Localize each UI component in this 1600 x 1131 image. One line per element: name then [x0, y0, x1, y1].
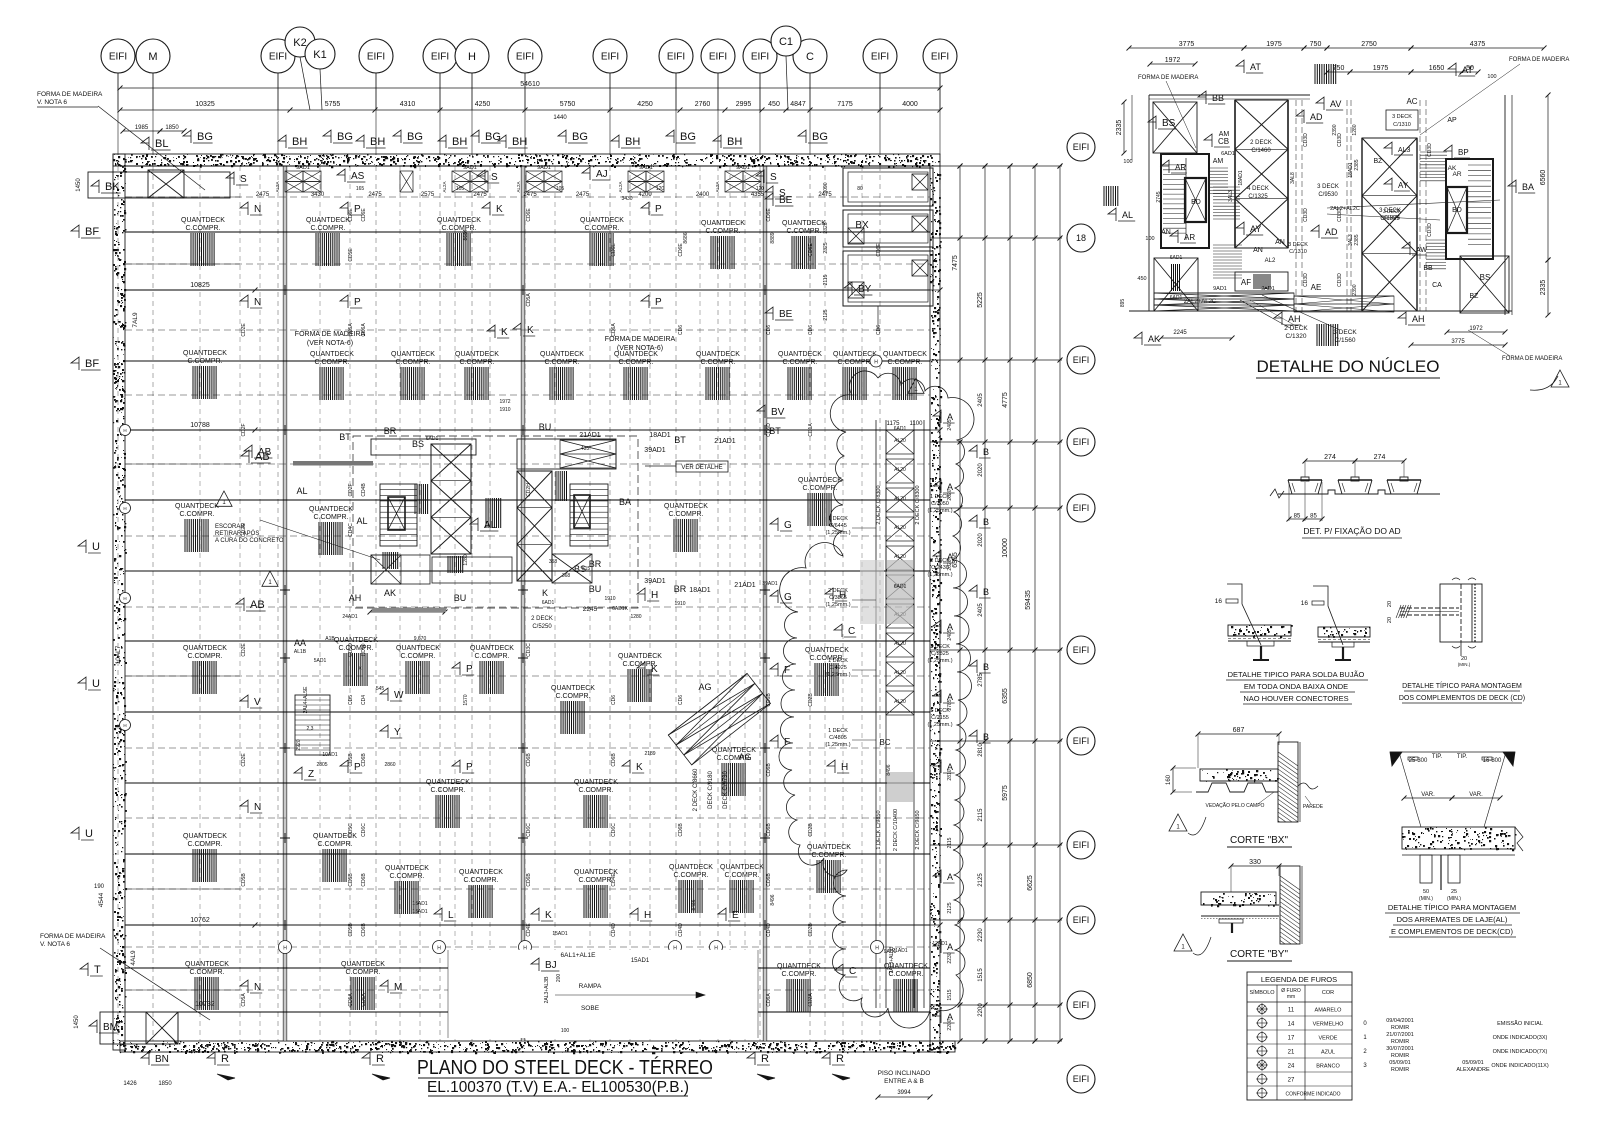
right dimension strings: [959, 166, 961, 1041]
svg-text:1972: 1972: [499, 399, 510, 405]
svg-text:EIFI: EIFI: [269, 52, 287, 63]
nucleo top right corner hatch: [1315, 64, 1336, 84]
svg-text:21/07/2001: 21/07/2001: [1386, 1032, 1414, 1038]
svg-text:C.COMPR.: C.COMPR.: [725, 872, 760, 879]
svg-text:AS: AS: [351, 171, 365, 182]
svg-text:EIFI: EIFI: [931, 52, 949, 63]
svg-text:C.COMPR.: C.COMPR.: [190, 969, 225, 976]
svg-text:C.COMPR.: C.COMPR.: [442, 225, 477, 232]
svg-text:120: 120: [656, 186, 665, 192]
svg-text:C.COMPR.: C.COMPR.: [783, 359, 818, 366]
svg-text:CD5B: CD5B: [348, 753, 354, 767]
nucleo bottom dims: [1161, 337, 1232, 339]
svg-text:9AD1: 9AD1: [296, 165, 310, 171]
svg-text:2860: 2860: [384, 762, 395, 768]
svg-text:K: K: [542, 588, 548, 598]
nucleo 6AD1 hatch strip: [1172, 264, 1180, 291]
svg-text:CD6: CD6: [678, 325, 684, 335]
svg-text:AY: AY: [1398, 181, 1409, 190]
svg-text:AL20: AL20: [894, 525, 906, 531]
svg-text:(1,25mm.): (1,25mm.): [825, 602, 850, 608]
svg-text:AJ: AJ: [596, 169, 608, 180]
svg-text:CD6: CD6: [876, 325, 882, 335]
svg-text:8684: 8684: [463, 229, 469, 240]
svg-text:5AD1: 5AD1: [314, 658, 327, 664]
svg-text:10788: 10788: [190, 422, 210, 429]
svg-text:QUANTDECK: QUANTDECK: [574, 779, 618, 786]
svg-text:BU: BU: [454, 593, 467, 603]
svg-text:B: B: [983, 732, 989, 742]
svg-text:CD6C: CD6C: [526, 823, 532, 837]
svg-text:2 DECK: 2 DECK: [1284, 325, 1308, 332]
svg-text:25: 25: [1451, 889, 1457, 895]
left core lower rects: [371, 555, 430, 584]
svg-text:6AD1: 6AD1: [894, 584, 907, 590]
svg-text:BS: BS: [1480, 273, 1491, 282]
nucleo AF box bottom center: [1235, 272, 1288, 291]
svg-text:BG: BG: [572, 131, 588, 143]
thick gray wall segments near cores: [293, 461, 373, 466]
svg-text:ONDE INDICADO(11X): ONDE INDICADO(11X): [1491, 1063, 1549, 1069]
svg-text:AL20: AL20: [894, 496, 906, 502]
svg-text:CD6B: CD6B: [361, 873, 367, 887]
svg-text:2 DECK C/8300: 2 DECK C/8300: [915, 485, 921, 524]
svg-text:DETALHE TIPICO PARA SOLDA BUJÃ: DETALHE TIPICO PARA SOLDA BUJÃO: [1228, 670, 1365, 679]
svg-text:3AL3: 3AL3: [1228, 190, 1234, 202]
svg-text:AF: AF: [1241, 278, 1251, 287]
svg-text:QUANTDECK: QUANTDECK: [551, 685, 595, 692]
svg-text:H: H: [123, 506, 126, 511]
svg-text:10000: 10000: [1002, 538, 1009, 558]
svg-text:30/07/2001: 30/07/2001: [1386, 1046, 1414, 1052]
nucleo bottom center hatch: [1317, 324, 1338, 346]
svg-text:3430: 3430: [621, 196, 632, 202]
svg-text:C/5250: C/5250: [532, 624, 552, 630]
svg-text:BA: BA: [619, 497, 631, 507]
svg-text:COR: COR: [1322, 990, 1334, 996]
svg-text:AL: AL: [296, 486, 307, 496]
svg-text:TIP.: TIP.: [1432, 754, 1443, 760]
bottom left BM box: [100, 1012, 178, 1044]
svg-text:C.COMPR.: C.COMPR.: [669, 511, 704, 518]
svg-text:AL2A: AL2A: [275, 181, 280, 192]
svg-text:C.COMPR.: C.COMPR.: [464, 877, 499, 884]
svg-text:2 DECK C/8660: 2 DECK C/8660: [693, 768, 699, 811]
svg-text:QUANTDECK: QUANTDECK: [720, 864, 764, 871]
corte BX deck continuation right: [1298, 783, 1318, 789]
svg-text:105: 105: [456, 186, 465, 192]
svg-text:BZ: BZ: [1374, 158, 1384, 165]
svg-text:FORMA DE MADEIRA: FORMA DE MADEIRA: [40, 933, 106, 940]
svg-text:CD6E: CD6E: [876, 243, 882, 257]
svg-text:5750: 5750: [560, 101, 576, 108]
svg-text:EIFI: EIFI: [516, 52, 534, 63]
svg-text:VER DETALHE: VER DETALHE: [681, 465, 722, 471]
svg-text:EIFI: EIFI: [601, 52, 619, 63]
svg-text:(1,25mm.): (1,25mm.): [825, 530, 850, 536]
svg-text:CD2E: CD2E: [241, 643, 247, 657]
svg-text:59435: 59435: [1025, 590, 1032, 610]
svg-text:P: P: [466, 762, 473, 773]
svg-text:C.COMPR.: C.COMPR.: [339, 645, 374, 652]
svg-text:2995: 2995: [736, 101, 752, 108]
svg-text:1850: 1850: [165, 125, 179, 131]
svg-text:2245: 2245: [583, 606, 598, 613]
svg-text:27: 27: [1288, 1078, 1295, 1084]
svg-text:C/2155: C/2155: [931, 715, 949, 721]
svg-text:AL20: AL20: [894, 467, 906, 473]
plan top grid bubbles: [101, 39, 135, 73]
svg-text:H: H: [283, 946, 287, 952]
svg-text:6AD1: 6AD1: [542, 600, 555, 606]
nucleo small stair top hatch: [1208, 167, 1228, 169]
svg-text:A: A: [947, 482, 953, 492]
svg-text:K: K: [501, 327, 508, 338]
svg-text:2230: 2230: [947, 952, 953, 963]
svg-text:2335: 2335: [1116, 120, 1123, 136]
svg-text:4AL9: 4AL9: [130, 950, 137, 966]
svg-text:AD: AD: [1310, 112, 1323, 122]
svg-text:2AL2+AL2C: 2AL2+AL2C: [1184, 299, 1217, 305]
svg-text:EIFI: EIFI: [1073, 915, 1090, 925]
svg-text:N: N: [254, 982, 261, 993]
left core small hatches: [415, 484, 428, 514]
svg-text:C.COMPR.: C.COMPR.: [315, 359, 350, 366]
nucleo right X tall wall: [1362, 138, 1417, 311]
svg-text:QUANTDECK: QUANTDECK: [807, 844, 851, 851]
svg-text:12AD1: 12AD1: [932, 941, 948, 947]
svg-text:C.COMPR.: C.COMPR.: [706, 228, 741, 235]
svg-text:2020: 2020: [978, 533, 984, 547]
nucleo AL2B hatched zone: [1213, 186, 1240, 188]
det fixacao dims: [1305, 460, 1355, 462]
node circles on line 947: [279, 941, 292, 954]
svg-text:2405: 2405: [978, 393, 984, 407]
svg-text:AV: AV: [1330, 99, 1341, 109]
svg-text:AL2A: AL2A: [442, 181, 447, 192]
svg-text:VAR.: VAR.: [1421, 792, 1435, 798]
top dimension chain segments: [120, 109, 940, 111]
legenda de furos table: [1247, 972, 1352, 1100]
nucleo CD3D dashed strips: [1295, 100, 1297, 311]
svg-text:P: P: [655, 297, 662, 308]
svg-text:C: C: [849, 966, 856, 977]
svg-text:2760: 2760: [695, 101, 711, 108]
svg-text:C.COMPR.: C.COMPR.: [460, 359, 495, 366]
svg-text:A: A: [947, 1012, 953, 1022]
texture tick crosses at intersections: [280, 285, 770, 930]
svg-text:DET. P/ FIXAÇÃO DO AD: DET. P/ FIXAÇÃO DO AD: [1303, 526, 1400, 536]
nucleo right edge frame: [1504, 95, 1506, 315]
svg-text:BD: BD: [1191, 199, 1201, 206]
svg-text:C.COMPR.: C.COMPR.: [311, 225, 346, 232]
svg-text:AT: AT: [1462, 65, 1473, 75]
svg-text:2 DECK C/10400: 2 DECK C/10400: [893, 809, 899, 851]
svg-text:EIFI: EIFI: [1073, 1000, 1090, 1010]
right dim tick marks: [958, 164, 1063, 1044]
svg-text:C.COMPR.: C.COMPR.: [674, 872, 709, 879]
svg-text:C/3865: C/3865: [829, 595, 847, 601]
svg-text:B: B: [983, 662, 989, 672]
svg-text:2575: 2575: [421, 192, 435, 198]
svg-text:C.COMPR.: C.COMPR.: [431, 787, 466, 794]
right core X brace wall: [517, 471, 552, 581]
svg-text:ONDE INDICADO(3X): ONDE INDICADO(3X): [1493, 1035, 1548, 1041]
svg-text:100: 100: [1487, 74, 1496, 80]
detalhe arremates - V shapes: [1390, 752, 1402, 766]
svg-text:C.COMPR.: C.COMPR.: [803, 485, 838, 492]
svg-text:1515: 1515: [947, 989, 953, 1000]
svg-text:BG: BG: [680, 131, 696, 143]
svg-text:(1,25mm.): (1,25mm.): [927, 508, 952, 514]
svg-text:8496: 8496: [770, 894, 776, 905]
svg-text:CD3D: CD3D: [1427, 143, 1433, 157]
svg-text:BP: BP: [1458, 148, 1469, 157]
svg-text:ROMIR: ROMIR: [1391, 1053, 1409, 1059]
svg-text:EIFI: EIFI: [1073, 355, 1090, 365]
svg-text:QUANTDECK: QUANTDECK: [183, 350, 227, 357]
svg-text:H: H: [123, 723, 126, 728]
right side grid bubbles EIFI: [1067, 133, 1095, 161]
svg-text:C/1560: C/1560: [1335, 337, 1356, 344]
svg-text:1 DECK: 1 DECK: [930, 494, 950, 500]
svg-text:AD: AD: [1325, 227, 1338, 237]
svg-text:1570: 1570: [463, 694, 469, 705]
svg-text:120: 120: [756, 186, 765, 192]
svg-text:K: K: [636, 762, 643, 773]
svg-text:QUANTDECK: QUANTDECK: [306, 217, 350, 224]
svg-text:CORTE "BX": CORTE "BX": [1230, 835, 1288, 846]
svg-text:TIP.: TIP.: [1457, 754, 1468, 760]
svg-text:433: 433: [581, 446, 590, 452]
nucleo right bottom xbox: [1460, 256, 1509, 313]
svg-text:5225: 5225: [977, 292, 984, 308]
svg-text:P: P: [354, 762, 361, 773]
svg-text:21AD1: 21AD1: [714, 438, 736, 445]
svg-text:CD4D: CD4D: [611, 923, 617, 937]
svg-text:B: B: [983, 517, 989, 527]
svg-text:CD1A: CD1A: [808, 423, 814, 437]
svg-text:9AD1: 9AD1: [537, 165, 551, 171]
svg-text:CD3D: CD3D: [1337, 273, 1343, 287]
svg-text:CD5E: CD5E: [348, 248, 354, 262]
svg-text:CD4D: CD4D: [678, 923, 684, 937]
svg-text:QUANTDECK: QUANTDECK: [341, 961, 385, 968]
plan outer border speckled bands: [113, 154, 940, 166]
svg-text:1975: 1975: [1373, 65, 1389, 72]
top band X-brace strips 9AD1: [285, 171, 303, 182]
corte BY notes: [1174, 934, 1192, 951]
svg-text:CD50: CD50: [361, 643, 367, 656]
svg-text:QUANTDECK: QUANTDECK: [396, 645, 440, 652]
svg-text:C.COMPR.: C.COMPR.: [188, 358, 223, 365]
svg-text:18: 18: [1076, 233, 1086, 243]
svg-text:CD5A: CD5A: [348, 323, 354, 337]
svg-text:C.COMPR.: C.COMPR.: [346, 969, 381, 976]
left stair lower: [295, 695, 330, 755]
svg-text:05/09/01: 05/09/01: [1389, 1060, 1410, 1066]
svg-text:2920: 2920: [296, 739, 302, 750]
svg-text:QUANTDECK: QUANTDECK: [470, 645, 514, 652]
triangle 1 marker near cloud top: [908, 378, 924, 393]
svg-text:CORTE "BY": CORTE "BY": [1230, 949, 1288, 960]
svg-text:21AD1: 21AD1: [579, 432, 601, 439]
svg-text:2385: 2385: [1354, 159, 1360, 170]
svg-text:QUANTDECK: QUANTDECK: [777, 963, 821, 970]
svg-text:CD5A: CD5A: [526, 293, 532, 307]
svg-text:C.COMPR.: C.COMPR.: [390, 873, 425, 880]
svg-text:CD6B: CD6B: [611, 753, 617, 767]
svg-text:EIFI: EIFI: [109, 52, 127, 63]
svg-text:10762: 10762: [190, 917, 210, 924]
svg-text:QUANTDECK: QUANTDECK: [459, 869, 503, 876]
svg-text:QUANTDECK: QUANTDECK: [334, 637, 378, 644]
arremates legs: [1420, 855, 1432, 883]
svg-text:S: S: [770, 172, 777, 183]
svg-text:EIFI: EIFI: [367, 52, 385, 63]
svg-text:CD6B: CD6B: [526, 753, 532, 767]
svg-text:9AD1: 9AD1: [884, 949, 897, 955]
svg-text:H: H: [123, 596, 126, 601]
svg-text:15AD1: 15AD1: [631, 958, 650, 964]
svg-text:QUANTDECK: QUANTDECK: [437, 217, 481, 224]
svg-text:G: G: [784, 520, 792, 531]
svg-text:5755: 5755: [325, 101, 341, 108]
svg-text:FORMA DE MADEIRA: FORMA DE MADEIRA: [1138, 75, 1198, 81]
svg-text:2805: 2805: [316, 762, 327, 768]
svg-text:4250: 4250: [637, 101, 653, 108]
svg-text:2020: 2020: [978, 463, 984, 477]
svg-text:CD6E: CD6E: [361, 208, 367, 222]
top dimension chain 54610: [120, 87, 940, 89]
svg-text:DETALHE DO NÚCLEO: DETALHE DO NÚCLEO: [1257, 357, 1440, 376]
svg-text:1 DECK: 1 DECK: [930, 644, 950, 650]
svg-text:AL: AL: [1122, 210, 1133, 220]
svg-text:C/4805: C/4805: [829, 735, 847, 741]
svg-text:368: 368: [562, 573, 571, 579]
svg-text:11: 11: [1288, 1008, 1295, 1014]
svg-text:NAO HOUVER CONECTORES: NAO HOUVER CONECTORES: [1243, 694, 1348, 703]
svg-text:CD6: CD6: [611, 695, 617, 705]
svg-text:4847: 4847: [790, 101, 806, 108]
svg-text:(MIN.): (MIN.): [1458, 662, 1471, 667]
svg-text:4000: 4000: [902, 101, 918, 108]
svg-text:N: N: [254, 802, 261, 813]
svg-text:2 DECK C/8300: 2 DECK C/8300: [876, 485, 882, 524]
svg-text:AL20: AL20: [894, 670, 906, 676]
svg-text:5975: 5975: [1002, 785, 1009, 801]
svg-text:A1B: A1B: [325, 636, 335, 642]
svg-text:AT: AT: [1250, 62, 1261, 72]
svg-text:AZUL: AZUL: [1321, 1050, 1335, 1056]
svg-text:AP: AP: [1447, 117, 1457, 124]
svg-text:C.COMPR.: C.COMPR.: [619, 359, 654, 366]
svg-text:100: 100: [561, 1028, 570, 1034]
svg-text:21: 21: [1288, 1050, 1295, 1056]
svg-text:A: A: [947, 552, 953, 562]
svg-text:AG: AG: [698, 682, 711, 692]
svg-text:EIFI: EIFI: [431, 52, 449, 63]
svg-text:PAREDE: PAREDE: [1303, 804, 1324, 810]
svg-text:3775: 3775: [1451, 339, 1465, 345]
svg-text:2335: 2335: [1540, 280, 1547, 296]
svg-text:AB: AB: [258, 447, 272, 458]
svg-text:1450: 1450: [76, 178, 82, 192]
nucleo left BS xbox: [1153, 102, 1197, 153]
svg-text:(VER NOTA-6): (VER NOTA-6): [617, 345, 663, 352]
svg-text:358: 358: [549, 559, 558, 565]
montagem pins: [1400, 607, 1459, 609]
svg-text:2115: 2115: [823, 274, 829, 285]
svg-text:CD6E: CD6E: [766, 208, 772, 222]
nucleo right stair enclosure: [1446, 159, 1493, 259]
major grid lines to right bubbles: [930, 165, 1062, 167]
svg-text:CD6A: CD6A: [611, 323, 617, 337]
svg-text:C.COMPR.: C.COMPR.: [888, 359, 923, 366]
svg-text:P: P: [354, 297, 361, 308]
svg-text:200: 200: [556, 974, 562, 983]
svg-text:CD6E: CD6E: [611, 243, 617, 257]
svg-text:CD2E: CD2E: [241, 753, 247, 767]
svg-text:QUANTDECK: QUANTDECK: [669, 864, 713, 871]
svg-text:N: N: [254, 297, 261, 308]
svg-text:H: H: [874, 360, 878, 366]
svg-text:AR: AR: [1452, 171, 1461, 178]
svg-text:20: 20: [1387, 601, 1393, 607]
svg-text:AL2A: AL2A: [715, 181, 720, 192]
svg-text:CD2E: CD2E: [241, 323, 247, 337]
svg-text:C.COMPR.: C.COMPR.: [556, 693, 591, 700]
svg-text:FORMA DE MADEIRA: FORMA DE MADEIRA: [1502, 356, 1562, 362]
svg-text:(1,25mm.): (1,25mm.): [825, 742, 850, 748]
svg-text:2230: 2230: [978, 928, 984, 942]
svg-text:A: A: [947, 692, 953, 702]
svg-text:CD6B: CD6B: [766, 873, 772, 887]
detalhe do nucleo top dimension chains: [1129, 47, 1244, 49]
svg-text:7175: 7175: [837, 101, 853, 108]
svg-text:CD4B: CD4B: [361, 483, 367, 497]
svg-text:ROMIR: ROMIR: [1391, 1067, 1409, 1073]
svg-text:V. NOTA 6: V. NOTA 6: [37, 99, 67, 106]
svg-text:E COMPLEMENTOS DE DECK(CD): E COMPLEMENTOS DE DECK(CD): [1391, 927, 1513, 936]
svg-text:C/1320: C/1320: [1286, 333, 1307, 340]
svg-text:330: 330: [1249, 859, 1261, 866]
svg-text:CD2F: CD2F: [241, 423, 247, 436]
svg-text:H: H: [875, 946, 879, 952]
svg-text:BC: BC: [879, 738, 890, 747]
svg-text:AN: AN: [1275, 239, 1285, 246]
svg-text:CD6B: CD6B: [766, 763, 772, 777]
svg-text:BU: BU: [539, 422, 552, 432]
svg-text:ENTRE A & B: ENTRE A & B: [884, 1078, 924, 1085]
svg-text:K1: K1: [313, 49, 326, 61]
svg-text:1910: 1910: [604, 596, 615, 602]
svg-text:3775: 3775: [1179, 41, 1195, 48]
svg-text:2AL3+AL3B: 2AL3+AL3B: [544, 976, 550, 1003]
svg-text:3AL3: 3AL3: [1348, 234, 1354, 246]
svg-text:6AL1+AL1E: 6AL1+AL1E: [561, 952, 597, 959]
nucleo right elevator BD: [1447, 187, 1467, 233]
svg-text:QUANTDECK: QUANTDECK: [185, 961, 229, 968]
svg-text:(1,25mm.): (1,25mm.): [927, 658, 952, 664]
BX BY boxes right top: [843, 168, 933, 206]
svg-text:4375: 4375: [1470, 41, 1486, 48]
svg-text:P: P: [466, 664, 473, 675]
svg-text:BF: BF: [85, 358, 99, 370]
svg-text:750: 750: [1310, 41, 1322, 48]
svg-text:K: K: [496, 204, 503, 215]
svg-text:H: H: [468, 51, 476, 63]
